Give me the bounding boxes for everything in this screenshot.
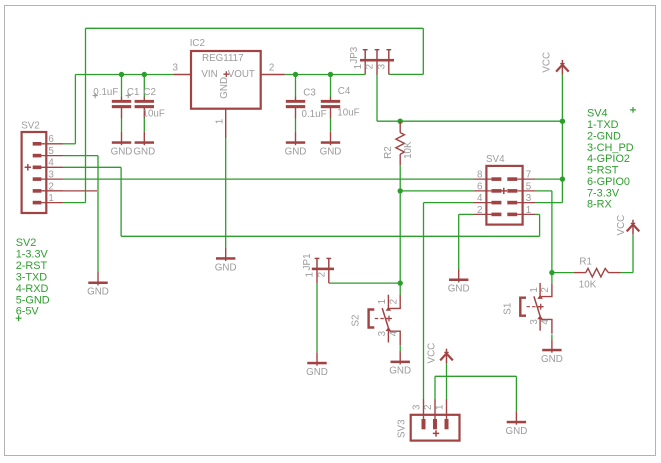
wire C2 bottom to GND xyxy=(143,118,145,132)
SV2 pin 5 lead xyxy=(41,155,63,157)
ground JP1 pin1 xyxy=(306,352,328,378)
svg-text:10uF: 10uF xyxy=(337,108,359,119)
svg-text:VCC: VCC xyxy=(542,52,553,73)
SV4 pin 6 lead xyxy=(474,190,491,192)
wire GPIO2 drop to SV3 pin 3 xyxy=(423,203,425,399)
SV2 pin 3 pad xyxy=(33,177,42,181)
wire SV4 pin 5 stub xyxy=(535,190,552,192)
svg-text:10uF: 10uF xyxy=(143,108,165,119)
svg-text:1: 1 xyxy=(305,272,316,277)
wire 5V SV2 pin 6 stub xyxy=(63,143,75,145)
svg-text:0.1uF: 0.1uF xyxy=(302,109,327,120)
wire C1 top xyxy=(121,75,123,98)
svg-text:VOUT: VOUT xyxy=(228,69,255,80)
svg-text:1-TXD: 1-TXD xyxy=(587,119,619,131)
capacitor C1 pins xyxy=(121,97,123,118)
junction at C3/VOUT rail xyxy=(293,72,298,77)
SV4 pin 4 lead xyxy=(474,202,491,204)
svg-text:C4: C4 xyxy=(338,86,351,97)
svg-text:GND: GND xyxy=(320,146,342,157)
svg-text:3: 3 xyxy=(48,170,54,181)
IC2 origin cross xyxy=(223,71,229,77)
ground C2 xyxy=(133,132,155,158)
wire 3.3V top horizontal SV2.1 to JP3.3 xyxy=(86,27,424,29)
wire C4 bottom to GND xyxy=(330,118,332,132)
SV4 pin 2 lead xyxy=(474,213,491,215)
wire TXD SV2 pin 3 to SV4 pin 8 xyxy=(63,178,474,180)
wire VCC horizontal JP3.2 to VCC symbol xyxy=(377,120,562,122)
SV2 pin 2 lead (under wires) xyxy=(41,190,97,192)
svg-text:SV4: SV4 xyxy=(587,108,608,120)
wire 3.3V into JP3 pin 3 xyxy=(389,73,424,75)
wire VCC riser at R1 xyxy=(632,234,634,272)
svg-text:5: 5 xyxy=(48,146,54,157)
svg-text:8: 8 xyxy=(477,170,483,181)
svg-text:GND: GND xyxy=(306,367,328,378)
IC REG1117 U-IC2 body xyxy=(191,51,261,109)
svg-text:SV3: SV3 xyxy=(396,419,407,438)
note text SV4 pinout xyxy=(587,108,634,211)
wire JP1 pin 2 to GPIO0 junction xyxy=(329,282,400,284)
ground C1 xyxy=(111,132,133,158)
svg-text:6-5V: 6-5V xyxy=(16,306,40,318)
VCC symbol VCC3 xyxy=(440,349,453,364)
svg-text:8-RX: 8-RX xyxy=(587,199,613,211)
connector SV4 body xyxy=(486,166,522,225)
wire RXD long horizontal xyxy=(121,235,539,237)
svg-text:1: 1 xyxy=(48,193,53,204)
svg-text:2: 2 xyxy=(540,287,551,292)
SV4 pin 1 lead xyxy=(517,213,535,215)
SV2 pin 1 lead xyxy=(41,202,63,204)
wire GPIO0 drop to S2 xyxy=(399,191,401,283)
svg-text:1: 1 xyxy=(529,287,540,292)
svg-text:1: 1 xyxy=(434,405,445,410)
svg-text:5-RST: 5-RST xyxy=(587,165,619,177)
svg-text:C2: C2 xyxy=(143,87,156,98)
connector SV3 body xyxy=(411,415,460,441)
wire JP1 pin 1 to GND xyxy=(316,283,318,352)
wire RXD into SV4 pin 1 xyxy=(535,213,540,215)
wire SV2 pin 5 GND drop xyxy=(97,156,99,272)
wire RXD vertical drop xyxy=(120,167,122,236)
resistor R2 pins xyxy=(399,121,401,165)
svg-text:3: 3 xyxy=(529,319,540,325)
svg-text:2: 2 xyxy=(477,205,482,216)
wire 3.3V left vertical to SV2 pin 1 xyxy=(85,28,87,202)
wire S1 pin 4 to GND xyxy=(551,335,553,340)
capacitor C4 plates xyxy=(321,100,340,108)
svg-text:VCC: VCC xyxy=(616,215,627,236)
ground SV3 pin2 xyxy=(506,411,528,437)
svg-text:S1: S1 xyxy=(502,303,513,315)
capacitor C2 pins xyxy=(143,97,145,118)
origin cross of SV2 note xyxy=(16,315,22,321)
svg-text:IC2: IC2 xyxy=(190,38,205,49)
SV4 pin 7 lead xyxy=(517,178,535,180)
svg-text:4: 4 xyxy=(388,330,399,336)
junction at R1 / S1 / RST xyxy=(549,270,554,275)
SV2 pin 3 lead xyxy=(41,178,63,180)
wire VCC vertical xyxy=(561,75,563,180)
svg-text:1: 1 xyxy=(526,205,531,216)
wire SV4 pin 2 GND drop xyxy=(458,214,460,269)
wire C3 bottom to GND xyxy=(295,118,297,132)
junction at R2 bottom / GPIO0 xyxy=(398,188,403,193)
junction at JP1 / S2 / GPIO0 xyxy=(398,280,403,285)
svg-text:GND: GND xyxy=(285,146,307,157)
origin cross of C1 name xyxy=(126,93,131,98)
SV4 pin 3 lead xyxy=(517,202,535,204)
wire RXD riser to SV4 pin 1 xyxy=(539,214,541,236)
svg-text:4-RXD: 4-RXD xyxy=(16,283,49,295)
svg-text:GND: GND xyxy=(111,146,133,157)
svg-text:4: 4 xyxy=(477,193,483,204)
ground C4 xyxy=(320,132,342,158)
svg-text:3: 3 xyxy=(377,330,388,336)
svg-text:GND: GND xyxy=(87,287,109,298)
ground SV4 pin2 xyxy=(448,269,470,295)
IC2 pin 3 xyxy=(174,74,192,76)
ground IC2 pin1 xyxy=(215,248,237,274)
capacitor C2 plates xyxy=(135,100,154,108)
resistor R2 zigzag xyxy=(396,133,405,155)
connector SV2 body xyxy=(22,132,47,213)
SV2 pin 1 pad xyxy=(33,201,42,205)
junction at C1/5V rail xyxy=(119,72,124,77)
VCC symbol VCC2 xyxy=(627,220,640,235)
svg-text:3: 3 xyxy=(526,193,532,204)
svg-text:2: 2 xyxy=(365,64,376,69)
svg-text:4-GPIO2: 4-GPIO2 xyxy=(587,153,630,165)
resistor R1 pins xyxy=(574,272,621,274)
wire GPIO0 junction to S2 pin 2 xyxy=(399,283,401,295)
capacitor C3 plates xyxy=(286,100,305,108)
svg-text:GND: GND xyxy=(506,426,528,437)
wire RST to S1 pin 2 xyxy=(551,273,553,283)
svg-text:6: 6 xyxy=(477,181,483,192)
wire SV4 pin 3 stub xyxy=(535,202,562,204)
svg-text:0.1uF: 0.1uF xyxy=(93,87,118,98)
ground SV2 pin5 xyxy=(87,272,109,298)
svg-text:JP3: JP3 xyxy=(349,46,360,63)
svg-text:2: 2 xyxy=(269,63,274,74)
switch S2 symbol xyxy=(369,295,401,346)
wire RXD SV2 pin 4 stub xyxy=(63,166,121,168)
svg-text:3: 3 xyxy=(173,63,179,74)
svg-text:R1: R1 xyxy=(579,257,592,268)
wire C2 top xyxy=(143,75,145,98)
SV3 polarity cross xyxy=(433,430,439,436)
svg-text:2: 2 xyxy=(388,299,399,304)
resistor R1 zigzag xyxy=(586,268,611,277)
wire GPIO0 to SV4 pin 6 xyxy=(400,190,474,192)
svg-text:GND: GND xyxy=(133,146,155,157)
svg-text:1-3.3V: 1-3.3V xyxy=(16,248,49,260)
svg-text:5-GND: 5-GND xyxy=(16,294,50,306)
note text SV2 pinout xyxy=(16,237,50,318)
svg-text:1: 1 xyxy=(214,119,225,124)
jumper JP3 symbol xyxy=(360,50,394,75)
wire SV4 pin 3 riser to VCC xyxy=(561,179,563,203)
svg-text:C3: C3 xyxy=(303,88,316,99)
SV4 pin 3 pad xyxy=(507,201,517,205)
junction at C4/VOUT rail xyxy=(328,72,333,77)
SV2 pin 2 pad xyxy=(33,189,42,193)
svg-text:SV2: SV2 xyxy=(16,237,37,249)
wire SV4 pin 2 stub xyxy=(459,213,474,215)
SV4 pin 5 pad xyxy=(507,189,517,193)
svg-text:6-GPIO0: 6-GPIO0 xyxy=(587,176,630,188)
svg-text:SV2: SV2 xyxy=(21,121,40,132)
junction at VCC riser xyxy=(560,119,565,124)
SV2 polarity cross xyxy=(25,164,31,170)
SV3 pin 1 lead xyxy=(446,399,448,420)
junction at C2/5V rail xyxy=(142,72,147,77)
ground C3 xyxy=(285,132,307,158)
wire R1 right to VCC riser xyxy=(621,272,634,274)
ground S2 xyxy=(389,351,411,377)
IC2 pin 2 xyxy=(261,74,285,76)
wire SV4 pin 7 to VCC xyxy=(535,178,562,180)
svg-text:GND: GND xyxy=(389,366,411,377)
pin numbers of S1 xyxy=(529,287,551,324)
svg-text:7: 7 xyxy=(526,170,531,181)
svg-text:5: 5 xyxy=(526,181,532,192)
wire VCC from JP3 pin 2 down xyxy=(376,74,378,122)
svg-text:C1: C1 xyxy=(127,87,140,98)
SV2 pin 6 pad xyxy=(33,142,42,146)
wire 5V riser xyxy=(74,75,76,144)
SV2 pin 2 lead xyxy=(41,190,63,192)
svg-text:3: 3 xyxy=(411,404,422,410)
svg-text:2: 2 xyxy=(316,272,327,277)
svg-text:7-3.3V: 7-3.3V xyxy=(587,187,620,199)
svg-text:S2: S2 xyxy=(351,315,362,327)
svg-text:3-TXD: 3-TXD xyxy=(16,271,48,283)
svg-text:4: 4 xyxy=(48,158,54,169)
wire SV2 pin 5 to GND xyxy=(63,155,98,157)
capacitor C3 pins xyxy=(295,97,297,118)
SV3 pin 3 pad xyxy=(422,419,426,429)
svg-text:JP1: JP1 xyxy=(302,253,313,270)
wire GPIO2 SV4 pin 4 stub xyxy=(424,202,475,204)
svg-text:1: 1 xyxy=(377,299,388,304)
capacitor C4 pins xyxy=(330,97,332,118)
wire C3 top xyxy=(295,75,297,98)
svg-text:REG1117: REG1117 xyxy=(202,53,244,64)
SV3 pin 1 pad xyxy=(445,419,449,429)
svg-text:3: 3 xyxy=(376,63,387,69)
svg-text:R2: R2 xyxy=(383,146,394,159)
svg-text:VIN: VIN xyxy=(201,69,217,80)
wire C1 bottom to GND xyxy=(121,118,123,132)
wire R2 bottom xyxy=(399,165,401,191)
svg-text:VCC: VCC xyxy=(427,343,438,364)
wire SV3 pin 2 GND drop xyxy=(515,376,517,411)
IC2 pin 1 xyxy=(225,109,227,138)
SV3 pin 3 lead xyxy=(423,399,425,420)
wire SV2 pin 1 stub xyxy=(63,202,86,204)
SV4 pin 5 lead xyxy=(517,190,535,192)
SV4 pin 7 pad xyxy=(507,177,517,181)
svg-text:GND: GND xyxy=(219,77,230,99)
SV4 pin 6 pad xyxy=(491,189,501,193)
wire IC2 pin 1 to GND xyxy=(225,138,227,248)
wire SV3 pin 2 up xyxy=(434,376,436,399)
SV4 pin 4 pad xyxy=(491,201,501,205)
SV2 pin 5 pad xyxy=(33,154,42,158)
SV2 pin 4 pad xyxy=(33,166,42,170)
SV2 pin 6 lead xyxy=(41,143,63,145)
wire RST drop to R1/S1 xyxy=(551,191,553,273)
svg-text:GND: GND xyxy=(215,262,237,273)
svg-text:10K: 10K xyxy=(403,141,414,159)
wire C4 top xyxy=(330,75,332,98)
SV4 pin 1 pad xyxy=(507,213,517,217)
wire 5V rail to IC2 VIN xyxy=(75,74,173,76)
svg-text:2: 2 xyxy=(48,181,53,192)
svg-text:4: 4 xyxy=(540,319,551,325)
switch S1 symbol xyxy=(520,283,552,334)
svg-text:GND: GND xyxy=(541,354,563,365)
pin numbers of S2 xyxy=(377,299,399,336)
SV3 pin 2 pad xyxy=(433,419,437,429)
SV3 pin 2 lead xyxy=(434,399,436,420)
SV4 pin 2 pad xyxy=(491,213,501,217)
svg-text:SV4: SV4 xyxy=(486,154,505,165)
svg-text:3-CH_PD: 3-CH_PD xyxy=(587,142,634,154)
SV2 pin 4 lead xyxy=(41,166,63,168)
svg-text:6: 6 xyxy=(48,134,54,145)
VCC symbol VCC1 xyxy=(556,60,569,75)
svg-text:1: 1 xyxy=(353,64,364,69)
wire S2 pin 4 to GND xyxy=(399,346,401,351)
SV4 pin 8 lead xyxy=(474,178,491,180)
wire VOUT rail IC2 pin 2 to JP3 pin 1 xyxy=(285,74,365,76)
origin cross of SV4 note xyxy=(630,107,636,113)
svg-text:10K: 10K xyxy=(579,279,597,290)
junction at SV4.7 / VCC xyxy=(560,176,565,181)
SV4 polarity cross xyxy=(501,188,507,194)
svg-text:2: 2 xyxy=(423,405,434,410)
svg-text:GND: GND xyxy=(448,284,470,295)
wire RST to R1 left xyxy=(552,272,574,274)
origin cross of C1 value xyxy=(93,93,98,98)
capacitor C1 plates xyxy=(112,100,131,108)
ground S1 xyxy=(541,339,563,365)
SV4 pin 8 pad xyxy=(491,177,501,181)
jumper JP1 symbol xyxy=(312,258,334,283)
junction at R2 top / VCC xyxy=(398,119,403,124)
wire SV3 pin 1 to VCC xyxy=(446,363,448,399)
wire 3.3V right vertical to JP3.3 xyxy=(422,28,424,74)
svg-text:2-RST: 2-RST xyxy=(16,260,48,272)
wire SV3 pin 2 horizontal xyxy=(435,375,516,377)
svg-text:2-GND: 2-GND xyxy=(587,130,621,142)
